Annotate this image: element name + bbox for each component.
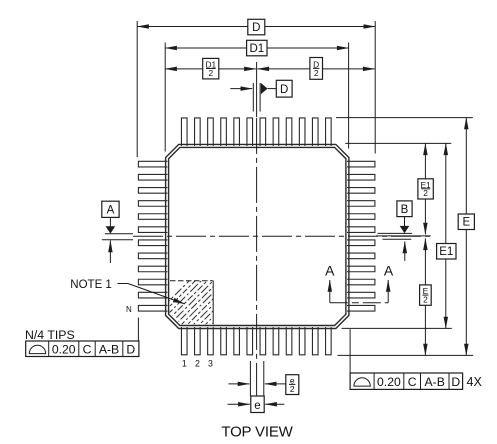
dimension D/2 line (right half) [257,68,374,70]
datum D label box [276,80,292,97]
dimension E1/2 label box [418,179,433,199]
tolerance frame right (profile | 0.20 | C | A-B | D) [350,373,463,389]
svg-text:2: 2 [423,188,428,198]
datum D connector [268,88,277,90]
horizontal centerline (dash-dot) [133,235,431,237]
dimension D1/2 line (left half) [165,68,256,70]
dimension D/2 label box [310,58,323,80]
svg-text:2: 2 [423,295,428,305]
datum A stem [109,217,111,226]
datum B mid solid centerline extension [376,235,431,237]
dimension D1 label box [247,40,267,56]
note leader line with arrowhead [128,284,185,304]
svg-text:A: A [325,262,335,278]
datum A lower line [102,239,133,241]
datum B label box [397,201,412,217]
svg-text:A-B: A-B [425,375,445,389]
datum D centerline side ticks [252,83,254,112]
note-1 hatched index area [140,270,266,330]
right pins (12) [347,161,375,311]
datum B upper line [378,232,413,234]
datum D pointer arrow [230,88,252,90]
dimension D line [137,26,375,28]
note-1 area right edge [212,281,214,325]
extension line bottom pin tips (for E) [338,354,474,356]
svg-text:0.20: 0.20 [377,375,401,389]
bottom pins (12, pins 1..12) [181,327,331,355]
dimension D1/2 label box [203,58,219,79]
datum A triangle [106,226,116,233]
top pins (12) [181,118,331,146]
left pins (12, pin N at bottom) [138,161,167,311]
note-1 area top dashed edge [170,280,213,282]
dimension E1 line [445,143,447,328]
svg-text:TOP VIEW: TOP VIEW [221,423,293,440]
datum B lower line [383,238,412,240]
extension line left pin tips (for D) [136,21,138,157]
svg-text:D: D [451,375,460,389]
dimension E label box [458,214,474,230]
svg-text:2: 2 [195,359,200,369]
svg-text:e: e [254,400,260,412]
dimension e left arrow [228,403,250,405]
svg-text:2: 2 [290,384,295,394]
dimension E line [465,118,467,356]
svg-text:2: 2 [314,68,319,78]
svg-text:A: A [107,205,115,217]
dimension e/2 right arrow [265,383,286,385]
dimension D label box [248,19,265,35]
datum A label box [102,201,119,217]
svg-text:D: D [126,343,135,357]
svg-text:NOTE 1: NOTE 1 [70,279,112,291]
svg-text:D: D [280,84,288,96]
dimension E/2 label box [420,285,432,305]
tolerance frame left (profile | 0.20 | C | A-B | D) [26,341,139,357]
datum A upper line [105,233,133,235]
datum B triangle [400,226,410,233]
svg-text:D1: D1 [249,43,264,55]
vertical centerline upper solid segment [256,62,258,117]
extension line right body edge (for D1) [348,43,350,149]
dimension E/2 line (lower half) [424,238,426,355]
datum A up arrow [109,241,111,264]
section A-A left arrow [329,280,331,303]
extension line body bottom (for E1) [342,327,452,329]
dimension e label box [251,396,264,413]
datum B up arrow [404,242,406,261]
leader from body edge down to right tolerance frame [349,329,351,373]
pitch extension line left (pin center) [249,361,251,396]
dimension e/2 left arrow [229,383,250,385]
svg-text:A-B: A-B [99,343,119,357]
extension line left body edge (for D1) [164,43,166,152]
svg-text:3: 3 [208,359,213,369]
vertical centerline (dash-dot) [256,118,258,397]
extension line right pin tips (for D) [374,21,376,154]
dimension e right arrow [265,403,284,405]
svg-text:N/4 TIPS: N/4 TIPS [25,328,75,342]
svg-text:E: E [462,217,470,229]
section A-A cut line [330,302,388,304]
extension line body top (for E1) [345,142,451,144]
dimension e/2 label box [286,375,299,395]
svg-text:D: D [252,22,260,34]
svg-text:E1: E1 [439,246,453,258]
package body inner outline [169,147,346,325]
svg-text:B: B [401,204,409,216]
svg-text:4X: 4X [467,375,483,389]
svg-text:0.20: 0.20 [52,343,76,357]
svg-text:2: 2 [208,68,213,78]
dimension E1 label box [437,244,456,260]
dimension D1 line [165,47,348,49]
datum B stem [404,217,406,227]
svg-text:A: A [384,262,394,278]
extension line top pin tips (for E) [336,117,473,119]
pitch extension line right (pin center) [263,361,265,396]
svg-text:C: C [83,343,92,357]
svg-text:1: 1 [182,359,187,369]
leader from pin N down to tolerance frame [137,318,139,342]
section A-A right arrow [387,280,389,303]
svg-text:C: C [408,375,417,389]
datum D flag triangle [261,83,268,94]
package body outer outline (chamfered) [166,144,349,328]
note leader dash [118,283,129,285]
svg-text:N: N [126,305,132,314]
dimension E1/2 line (upper half) [424,143,426,234]
